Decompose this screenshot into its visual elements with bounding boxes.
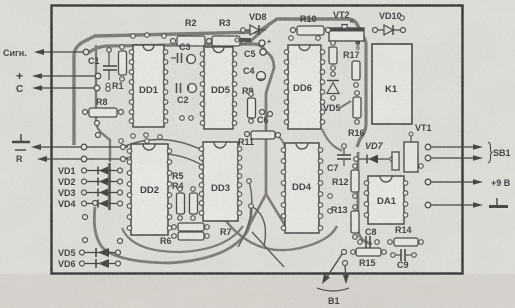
wire crossing at VD8 <box>247 26 268 44</box>
node Сигн arrow <box>3 48 89 58</box>
resistor near DD6 top <box>329 41 337 71</box>
diode VD6 left <box>58 259 121 269</box>
wire inner supply trace <box>88 44 265 53</box>
IC DA1 <box>364 176 408 224</box>
wire crossing to B1 <box>252 232 284 267</box>
wire DD6 bottom to C7 <box>322 129 342 151</box>
relay K1 <box>372 44 412 124</box>
wire trace left of DA1 <box>358 152 372 244</box>
wire board outline trace top <box>74 19 366 145</box>
node scattered pads middle row <box>93 121 333 214</box>
diode VD4 <box>58 199 123 209</box>
wire vertical trace left of DD1 <box>96 45 110 162</box>
IC DD2 <box>127 144 172 235</box>
resistor R1 <box>106 45 127 91</box>
wire curve DD2 to DD3 <box>123 139 216 170</box>
node SB1 arrows <box>425 142 510 163</box>
diode VD5 vertical <box>323 72 351 113</box>
transistor VT1 <box>404 123 432 172</box>
capacitor C7 <box>327 144 351 173</box>
resistor R7 label <box>220 227 232 237</box>
resistor R5 <box>172 171 185 220</box>
node plus arrow <box>16 69 101 83</box>
node pads below VD4 <box>83 215 123 244</box>
wire thin curve DD3 right b <box>251 206 265 246</box>
diode VD1 <box>58 166 123 176</box>
transistor VT2 <box>328 10 364 52</box>
node pads near VT1 right <box>419 164 424 169</box>
diode VD3 <box>58 188 123 198</box>
wire arc DD3 to DD4 <box>226 221 337 250</box>
resistor R17 <box>343 50 360 87</box>
resistor R4 <box>172 181 198 220</box>
wire big bottom arc outer <box>94 205 251 263</box>
capacitor C8 <box>358 227 380 248</box>
capacitor C2 and transistor case <box>177 83 197 120</box>
node +9V arrow <box>425 178 511 188</box>
diode VD2 <box>58 177 123 187</box>
capacitor C3 <box>171 42 191 63</box>
IC DD6 <box>284 45 325 129</box>
wire vertical trace left of K1 <box>357 42 366 147</box>
ground symbol left <box>12 134 30 142</box>
resistor R9 <box>242 86 256 123</box>
diode VD7 <box>354 141 395 164</box>
diode VD5 left <box>58 248 121 258</box>
wire thin curve DD3 right a <box>238 181 252 247</box>
node R-bar arrows <box>15 144 128 164</box>
IC DD5 <box>200 47 237 129</box>
node B1 arrows <box>317 250 349 307</box>
wire big bottom arc inner <box>122 226 243 252</box>
capacitor C9 <box>391 249 417 270</box>
IC DD4 <box>281 143 323 233</box>
transistor case near C3 <box>187 55 196 64</box>
resistor R2 <box>171 18 212 46</box>
node C arrow <box>16 84 110 95</box>
resistor R13 <box>331 205 359 240</box>
resistor R15 <box>351 248 387 268</box>
diode VD8 <box>241 12 267 35</box>
wire trace C5 down to R11 <box>249 51 286 227</box>
capacitor C4 <box>243 66 266 81</box>
board frame border <box>52 6 463 274</box>
resistor R11 <box>238 131 281 147</box>
resistor R8 <box>83 97 124 117</box>
resistor R3 <box>212 18 247 46</box>
capacitor C6 <box>257 110 273 126</box>
node scattered pads top <box>131 16 405 41</box>
resistor R12 <box>332 164 359 199</box>
jumper top pads <box>235 38 251 42</box>
wire vertical trace crossing VD1-VD4 <box>108 163 111 210</box>
diode VD10 <box>373 11 406 35</box>
IC DD3 <box>199 142 242 221</box>
capacitor C5 <box>244 49 266 59</box>
IC DD1 <box>129 45 168 127</box>
capacitor near VT1 <box>392 152 399 170</box>
resistor R16 <box>348 91 365 138</box>
resistor R14 <box>388 225 424 246</box>
resistor R6 pair <box>160 223 209 246</box>
ground symbol right <box>425 198 508 208</box>
capacitor C1 <box>88 48 117 80</box>
wire curve DD2 to DD3 second <box>123 154 218 181</box>
bottom margin smudges <box>80 285 465 304</box>
capacitor electrolytic plus mark <box>259 39 271 46</box>
resistor R10 <box>291 14 331 35</box>
